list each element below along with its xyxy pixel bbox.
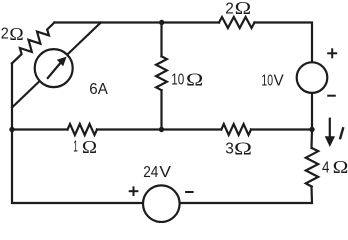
wire 10-ohm branch bottom lead xyxy=(160,90,162,129)
resistor R_top 2ohm zigzag xyxy=(219,17,255,28)
wire 6A diagonal branch xyxy=(12,23,101,108)
wire middle left segment xyxy=(12,128,68,130)
svg-text:2: 2 xyxy=(1,26,9,43)
resistor R2 2ohm diagonal zigzag (top-left) xyxy=(12,23,55,64)
svg-text:Ω: Ω xyxy=(186,69,203,89)
node dot 10-ohm branch / middle wire xyxy=(159,127,164,132)
current arrow I (down) at right rail xyxy=(325,118,335,147)
minus sign of 10V source xyxy=(327,95,336,97)
svg-text:V: V xyxy=(159,164,171,181)
svg-text:6A: 6A xyxy=(89,81,108,98)
wire bottom-right corner xyxy=(180,187,312,203)
voltage source V2 24V circle xyxy=(143,185,180,222)
resistor R10 10ohm zigzag xyxy=(156,56,167,90)
plus sign of 24V source xyxy=(129,186,139,196)
current source I1 arrow xyxy=(48,57,67,78)
svg-text:1: 1 xyxy=(73,139,78,156)
node dot right rail / middle wire xyxy=(309,127,314,132)
resistor R3 3ohm zigzag xyxy=(221,124,251,135)
svg-text:10: 10 xyxy=(261,72,273,89)
resistor R4 4ohm zigzag xyxy=(306,148,318,187)
svg-text:24: 24 xyxy=(143,164,158,181)
svg-text:V: V xyxy=(274,72,285,89)
node dot left rail / middle wire xyxy=(9,127,14,132)
svg-text:3: 3 xyxy=(225,141,234,158)
current source I1 6A circle xyxy=(35,49,73,87)
svg-text:2: 2 xyxy=(225,1,234,18)
plus sign of 10V source xyxy=(327,48,337,58)
wire right rail between 10V source and middle node xyxy=(311,93,313,130)
wire top (node between 2-ohm branches and 10V source) xyxy=(54,21,219,23)
svg-text:Ω: Ω xyxy=(235,0,252,18)
voltage source V1 10V circle xyxy=(297,62,328,93)
svg-text:Ω: Ω xyxy=(333,157,348,177)
wire top-right corner down to 10V source xyxy=(255,23,313,63)
resistor R1 1ohm zigzag xyxy=(68,124,98,135)
label I (current) xyxy=(340,127,344,139)
svg-text:4: 4 xyxy=(322,159,330,176)
minus sign of 24V source xyxy=(185,191,194,193)
svg-text:10: 10 xyxy=(171,72,184,89)
wire bottom-left from 24V source to left rail corner xyxy=(12,63,143,203)
node dot on top wire at 10-ohm branch xyxy=(159,20,164,25)
svg-text:Ω: Ω xyxy=(9,24,23,44)
svg-text:Ω: Ω xyxy=(234,139,252,159)
wire middle right segment xyxy=(251,128,312,130)
wire right rail lead into 4-ohm xyxy=(310,130,313,149)
wire 10-ohm branch top lead xyxy=(160,23,162,57)
svg-text:Ω: Ω xyxy=(82,137,97,157)
wire middle center segment xyxy=(97,128,221,130)
